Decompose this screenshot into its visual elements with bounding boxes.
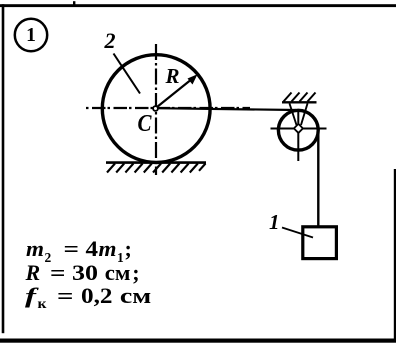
svg-text:0,2: 0,2: [81, 283, 113, 308]
svg-text:m: m: [99, 236, 117, 261]
svg-text:см: см: [105, 260, 131, 285]
svg-text:1: 1: [269, 210, 280, 234]
svg-text:2: 2: [104, 28, 116, 53]
svg-text:30: 30: [72, 260, 98, 285]
svg-text:=: =: [50, 260, 66, 285]
svg-text:R: R: [165, 64, 180, 88]
svg-text:см: см: [120, 283, 151, 308]
svg-text:1: 1: [26, 25, 36, 46]
svg-text:;: ;: [125, 236, 132, 261]
svg-text:=: =: [57, 283, 74, 308]
svg-text:к: к: [38, 296, 47, 311]
svg-text:=: =: [64, 236, 80, 261]
svg-text:;: ;: [132, 260, 139, 285]
svg-text:C: C: [138, 111, 153, 137]
svg-text:m: m: [26, 236, 44, 261]
svg-text:R: R: [25, 260, 41, 285]
svg-text:4: 4: [86, 236, 99, 261]
